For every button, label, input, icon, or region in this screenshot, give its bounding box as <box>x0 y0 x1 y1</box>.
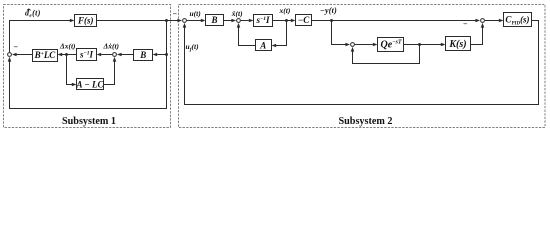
arrow into s^-1 I of subsystem 2 <box>249 19 254 23</box>
svg-text:−: − <box>463 19 468 28</box>
block C_PID(s) <box>504 13 532 27</box>
svg-text:B: B <box>210 15 217 25</box>
wire: s^-1 I output (delta x) into B+LC <box>62 54 77 56</box>
block Q e^-sT <box>378 38 404 52</box>
arrow into B+LC <box>58 53 63 57</box>
arrow into Q e^-sT box <box>373 43 378 47</box>
wire: -y(t) branch down into Q summer <box>332 21 346 45</box>
summer: Q loop <box>351 43 355 47</box>
arrow into C_PID <box>499 19 504 23</box>
svg-text:Δx(t): Δx(t) <box>59 42 76 51</box>
arrow into u summer left <box>177 19 182 23</box>
summer: xdot(t) <box>237 19 241 23</box>
arrow into -C <box>291 19 296 23</box>
arrow into A-LC <box>72 83 77 87</box>
svg-text:−: − <box>173 10 178 19</box>
arrow into K(s) <box>441 43 446 47</box>
svg-text:x(t): x(t) <box>279 6 291 15</box>
arrow into mid summer right <box>117 53 122 57</box>
wire: x(t) branch down into A input <box>276 21 286 46</box>
wire: B output into xdot summer <box>224 20 232 22</box>
svg-text:Subsystem 1: Subsystem 1 <box>62 116 116 127</box>
arrow into xdot summer left <box>231 19 236 23</box>
wire: Q summer output into Q e^-sT <box>355 44 373 46</box>
svg-text:F(s): F(s) <box>77 15 94 25</box>
svg-text:Subsystem 2: Subsystem 2 <box>338 116 392 127</box>
wire: K(s) output right and up into PID summer bottom <box>471 27 483 44</box>
wire: down rail from F(s) junction, bottom rail of subsystem 1, up into left summer <box>10 21 167 109</box>
summer: subsystem 1 left (d_e hat) <box>8 53 12 57</box>
block s^-1 I (subsystem 2) <box>254 15 273 27</box>
svg-text:−y(t): −y(t) <box>320 6 337 15</box>
wire: observer output up-left, d_e hat to F(s) <box>10 21 71 53</box>
junction dot at -y(t) <box>330 19 333 22</box>
arrow up into xdot summer bottom <box>237 23 241 28</box>
block B (subsystem 2) <box>206 15 224 26</box>
wire: A-LC output up into mid summer bottom <box>104 61 115 84</box>
wire: Q output to K(s) with junction <box>404 44 442 46</box>
block B+LC <box>33 50 58 62</box>
block A (subsystem 2) <box>256 40 272 51</box>
svg-text:ẋ(t): ẋ(t) <box>231 9 243 18</box>
wire: C_PID output down right side, bottom rail, up into u summer (u_f) <box>185 21 539 105</box>
arrow into left summer right <box>12 53 17 57</box>
junction dot on delta x wire <box>65 53 68 56</box>
arrow up into Q summer bottom <box>351 47 355 52</box>
arrow up into mid summer bottom <box>113 57 117 62</box>
subsystem 2 dashed boundary <box>179 5 546 128</box>
svg-text:A − LC: A − LC <box>76 79 105 89</box>
block F(s) <box>75 15 97 27</box>
arrow up into left summer of subsystem 1 <box>8 57 12 62</box>
arrow into s^-1 I of subsystem 1 <box>97 53 102 57</box>
summer: PID input <box>481 19 485 23</box>
block -C <box>296 15 312 26</box>
wire: A output left and up into xdot summer bottom <box>239 27 256 45</box>
svg-text:B: B <box>139 50 146 60</box>
svg-text:u(t): u(t) <box>190 9 202 18</box>
arrow into F(s) <box>70 19 75 23</box>
subsystem 1 dashed boundary <box>4 5 171 128</box>
junction dot at B branch of subsystem 1 <box>165 53 168 56</box>
wire: PID summer output into C_PID <box>485 20 499 22</box>
wire: u summer output into B of subsystem 2 <box>187 20 201 22</box>
wire: B+LC output into left summer <box>16 54 32 56</box>
wire: branch into B of subsystem 1 <box>157 54 166 56</box>
block K(s) <box>446 37 471 51</box>
wire: branch down into A-LC input <box>67 55 73 85</box>
arrow into PID summer left <box>475 19 480 23</box>
svg-text:−: − <box>14 43 19 52</box>
arrow into Q summer left <box>345 43 350 47</box>
wire: -C output -y(t) long run to PID summer <box>312 20 476 22</box>
svg-text:B+LC: B+LC <box>34 50 57 60</box>
wire: B output into mid summer <box>121 54 133 56</box>
arrow up into u summer bottom (u_f) <box>183 23 187 28</box>
block B (subsystem 1) <box>134 50 153 61</box>
arrow into B of subsystem 2 <box>201 19 206 23</box>
svg-text:−C: −C <box>298 15 310 25</box>
wire: smith predictor feedback from junction down and back into Q summer bottom <box>353 45 420 64</box>
hat accent over d <box>27 9 31 11</box>
junction dot after F(s) <box>165 19 168 22</box>
block s^-1 I (subsystem 1) <box>77 49 97 61</box>
wire: mid summer into s^-1 I <box>101 54 112 56</box>
junction dot after Q e^-sT <box>418 43 421 46</box>
junction dot at x(t) <box>285 19 288 22</box>
summer: u(t) <box>183 19 187 23</box>
svg-text:A: A <box>259 40 266 50</box>
wire: xdot summer into s^-1 I <box>241 20 249 22</box>
wire: F(s) output to junction and into subsystem 2 summer <box>97 20 178 22</box>
arrow up into PID summer bottom <box>481 23 485 28</box>
arrow into A right side <box>272 44 277 48</box>
block A-LC <box>77 79 104 90</box>
svg-text:K(s): K(s) <box>448 39 466 50</box>
arrow into B of subsystem 1 <box>153 53 158 57</box>
svg-text:Δẋ(t): Δẋ(t) <box>103 42 120 51</box>
wire: s^-1 I output x(t) to -C with junction <box>273 20 292 22</box>
summer: subsystem 1 mid (delta xdot) <box>113 53 117 57</box>
